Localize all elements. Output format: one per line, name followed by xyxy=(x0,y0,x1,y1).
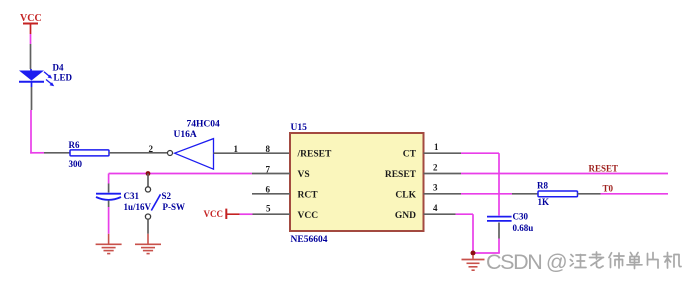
wire R6 to inverter input xyxy=(109,144,167,154)
svg-text:RESET: RESET xyxy=(385,170,417,180)
svg-text:C30: C30 xyxy=(513,212,529,222)
ground under S2 xyxy=(135,244,161,253)
svg-text:300: 300 xyxy=(69,159,83,169)
capacitor C30 xyxy=(487,212,533,234)
svg-text:P-SW: P-SW xyxy=(163,202,186,212)
wire pin2 RESET net xyxy=(461,173,668,175)
junction dot bottom-right xyxy=(471,251,476,256)
capacitor C31 xyxy=(96,174,152,213)
wire VCC to D4 anode xyxy=(30,34,32,69)
switch S2 xyxy=(145,174,185,220)
pin 2 stub xyxy=(424,162,462,173)
svg-text:8: 8 xyxy=(266,144,271,154)
svg-text:2: 2 xyxy=(149,144,154,154)
svg-text:D4: D4 xyxy=(53,63,64,73)
svg-text:4: 4 xyxy=(433,203,438,213)
ground under pin4 xyxy=(462,255,485,270)
wire R6 row left xyxy=(30,152,70,154)
svg-text:/RESET: /RESET xyxy=(297,150,332,160)
svg-text:RCT: RCT xyxy=(298,190,319,200)
pin 3 stub xyxy=(424,183,462,194)
wire pin4 GND down xyxy=(456,214,473,253)
wire VCC port to pin5 xyxy=(240,213,253,215)
svg-text:NE56604: NE56604 xyxy=(291,235,328,245)
svg-text:1: 1 xyxy=(434,142,439,152)
pin 5 stub xyxy=(253,204,291,215)
svg-text:VS: VS xyxy=(298,170,310,180)
svg-text:2: 2 xyxy=(433,162,438,172)
wire D4 cathode down to R6 row xyxy=(30,87,33,154)
svg-text:R6: R6 xyxy=(69,140,80,150)
svg-text:LED: LED xyxy=(54,73,73,83)
svg-text:CLK: CLK xyxy=(395,190,416,200)
svg-text:3: 3 xyxy=(433,183,438,193)
svg-text:1u/16V: 1u/16V xyxy=(124,202,152,212)
wire inverter output to U15 pin 8 xyxy=(214,144,291,154)
svg-text:0.68u: 0.68u xyxy=(513,223,534,233)
svg-text:74HC04: 74HC04 xyxy=(187,120,221,130)
svg-text:VCC: VCC xyxy=(204,209,224,219)
svg-text:RESET: RESET xyxy=(589,164,619,174)
wire pin1 CT to C30 xyxy=(461,153,499,215)
svg-text:S2: S2 xyxy=(162,191,172,201)
svg-text:U15: U15 xyxy=(291,123,308,133)
svg-text:5: 5 xyxy=(266,204,271,214)
svg-text:CT: CT xyxy=(403,150,417,160)
wire C30 bottom to ground net xyxy=(473,223,500,254)
svg-text:R8: R8 xyxy=(537,181,548,191)
svg-text:CSDN @: CSDN @ xyxy=(486,250,566,274)
svg-text:1K: 1K xyxy=(538,197,550,207)
wire pin7 VS net xyxy=(109,173,252,175)
svg-text:VCC: VCC xyxy=(20,13,42,24)
svg-text:U16A: U16A xyxy=(174,130,197,140)
pin 7 stub xyxy=(252,164,290,174)
svg-text:1: 1 xyxy=(234,144,239,154)
power VCC top-left xyxy=(20,13,42,34)
LED D4 xyxy=(19,63,73,88)
resistor R6 xyxy=(69,140,110,169)
watermark chinese glyphs xyxy=(570,252,681,269)
wire pin3 CLK to R8 xyxy=(461,193,538,195)
ground under C31 xyxy=(96,244,122,253)
wire C31 bottom to ground xyxy=(108,201,110,244)
power VCC at pin5 xyxy=(204,209,240,219)
pin 4 stub xyxy=(424,203,456,214)
svg-text:7: 7 xyxy=(266,164,271,174)
svg-text:GND: GND xyxy=(395,211,416,221)
wire R8 to T0 xyxy=(578,193,669,195)
svg-text:6: 6 xyxy=(266,185,271,195)
pin 6 stub xyxy=(252,185,290,195)
watermark CSDN xyxy=(486,250,566,274)
wire S2 bottom to ground xyxy=(147,219,149,243)
op-amp U16A 74HC04 inverter xyxy=(168,120,221,170)
IC U15 NE56604 body xyxy=(290,123,424,245)
junction dot S2/C31 node xyxy=(146,171,151,176)
svg-text:T0: T0 xyxy=(603,183,614,193)
svg-text:C31: C31 xyxy=(124,191,140,201)
resistor R8 xyxy=(537,181,578,207)
pin 1 stub xyxy=(424,142,462,153)
svg-text:VCC: VCC xyxy=(298,211,319,221)
